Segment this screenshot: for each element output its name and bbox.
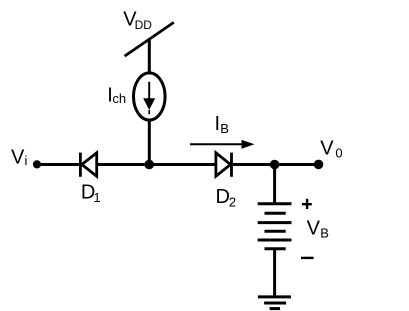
junction node dot (current source tap)	[144, 160, 154, 170]
svg-text:0: 0	[335, 146, 342, 161]
node V0 terminal dot	[314, 160, 324, 170]
wire node to battery	[273, 165, 276, 205]
plus sign	[302, 199, 312, 209]
current source I_ch	[134, 73, 166, 120]
Vi label	[11, 146, 28, 168]
IB label	[215, 113, 229, 136]
wire Vi to D1	[37, 163, 80, 166]
svg-text:B: B	[320, 225, 329, 240]
svg-text:DD: DD	[135, 18, 153, 32]
Ich label	[107, 85, 126, 107]
IB current arrow	[190, 140, 255, 149]
D2 label	[216, 186, 237, 209]
svg-text:I: I	[215, 113, 221, 135]
svg-text:2: 2	[229, 195, 236, 210]
svg-text:1: 1	[93, 190, 100, 205]
svg-text:V: V	[320, 137, 334, 159]
VDD rail (diagonal stroke)	[125, 22, 174, 56]
diode D1 (pointing left)	[80, 153, 96, 177]
minus sign	[301, 257, 314, 259]
svg-text:V: V	[11, 146, 25, 168]
battery VB plates	[258, 204, 292, 249]
svg-text:B: B	[220, 121, 229, 136]
ground	[258, 297, 291, 309]
wire battery to ground	[273, 249, 276, 297]
node Vi terminal dot	[33, 160, 41, 168]
svg-text:i: i	[25, 153, 28, 168]
diode D2 (pointing right)	[216, 153, 232, 177]
wire D2 to V0	[232, 163, 319, 166]
svg-text:V: V	[307, 218, 321, 240]
wire from VDD rail to current source	[148, 39, 151, 74]
V0 label	[320, 137, 342, 160]
svg-text:ch: ch	[112, 91, 126, 106]
wire from current source to node	[148, 119, 151, 165]
junction node dot (battery tap)	[270, 160, 280, 170]
VDD label	[123, 8, 152, 32]
wire D1 to D2	[97, 163, 216, 166]
VB label	[307, 218, 329, 241]
svg-text:D: D	[216, 186, 230, 208]
D1 label	[81, 181, 101, 204]
